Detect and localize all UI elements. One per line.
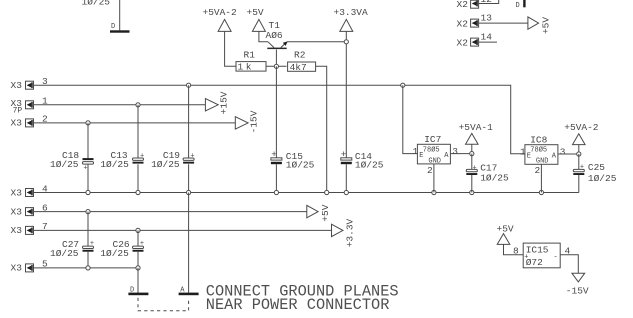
ground D (bottom) xyxy=(128,286,148,295)
svg-text:X3: X3 xyxy=(11,187,23,198)
svg-text:NEAR POWER CONNECTOR: NEAR POWER CONNECTOR xyxy=(206,296,390,314)
wire IC7 gnd xyxy=(433,164,435,193)
junction row4/C14 xyxy=(344,190,348,194)
junction row4/IC8 gnd xyxy=(539,190,543,194)
transistor T1 A06 xyxy=(266,20,288,49)
svg-text:X2: X2 xyxy=(457,0,469,10)
connector X3 pin 3 xyxy=(11,76,49,91)
wire row1 (X3-1 to +15V) xyxy=(34,104,206,106)
wire X2-12 up off-screen xyxy=(479,0,499,4)
svg-text:X3: X3 xyxy=(11,80,23,91)
svg-text:IC7: IC7 xyxy=(424,134,441,145)
junction row4/C19 xyxy=(187,190,191,194)
svg-text:A: A xyxy=(444,152,449,160)
connector X3 pin 1 xyxy=(11,96,49,116)
svg-text:-: - xyxy=(554,253,558,261)
ground A (bottom) xyxy=(179,286,199,295)
svg-text:k: k xyxy=(246,62,252,73)
voltage regulator IC7 xyxy=(413,134,459,176)
junction row1/C13 xyxy=(136,103,140,107)
svg-text:E: E xyxy=(527,153,531,161)
svg-text:-15V: -15V xyxy=(249,110,260,133)
svg-text:X3: X3 xyxy=(11,225,23,236)
svg-text:1: 1 xyxy=(520,146,526,157)
capacitor C26 xyxy=(100,230,144,268)
wire +5V to IC15 pin 8 xyxy=(504,244,524,254)
wire IC8 gnd xyxy=(540,164,542,192)
capacitor C15 xyxy=(271,149,315,193)
wire R2 to row4 xyxy=(315,66,326,192)
capacitor C27 xyxy=(50,212,94,268)
wire row3 to IC7 input xyxy=(403,85,418,153)
junction row4/C15 xyxy=(274,190,278,194)
wire C13 top xyxy=(137,105,139,158)
wire +5VA-2 to R1 xyxy=(225,31,236,66)
capacitor C25 xyxy=(573,154,616,193)
svg-text:1: 1 xyxy=(238,62,244,73)
resistor R1 xyxy=(236,50,266,73)
svg-text:X2: X2 xyxy=(457,38,469,49)
wire +3.3VA down through node to C14 xyxy=(345,31,347,157)
svg-text:X3: X3 xyxy=(11,206,23,217)
connector X3 pin 6 xyxy=(11,202,49,217)
junction row3/IC7 input xyxy=(401,83,405,87)
supply -15V (down triangle) xyxy=(566,273,589,296)
svg-text:1Ø/25: 1Ø/25 xyxy=(151,159,180,170)
connector X3 pin 5 xyxy=(11,259,49,274)
svg-text:1Ø/25: 1Ø/25 xyxy=(480,172,509,183)
svg-text:+15V: +15V xyxy=(218,91,229,114)
junction row4/C13 xyxy=(136,190,140,194)
svg-text:+5V: +5V xyxy=(541,17,552,34)
dashed link between ground planes xyxy=(138,298,189,311)
junction row4/R2 xyxy=(325,190,329,194)
wire row2 (X3-2 to -15V) xyxy=(34,122,236,124)
svg-text:78Ø5: 78Ø5 xyxy=(423,145,440,154)
capacitor C14 xyxy=(341,149,384,193)
svg-text:X3: X3 xyxy=(11,118,23,129)
supply arrow -15V xyxy=(235,110,259,133)
wire row4 to ground A xyxy=(188,193,190,293)
svg-text:IC15: IC15 xyxy=(526,244,549,255)
svg-text:8: 8 xyxy=(513,245,519,256)
power +5V (IC15) xyxy=(497,224,514,245)
svg-text:+5VA-2: +5VA-2 xyxy=(564,122,599,133)
junction IC8 out / C25 / +5VA-2 xyxy=(577,152,581,156)
svg-text:AØ6: AØ6 xyxy=(266,30,283,41)
wire +5V to T1 xyxy=(259,31,268,41)
capacitor C17 xyxy=(466,154,509,193)
svg-text:1Ø/25: 1Ø/25 xyxy=(355,159,384,170)
svg-text:+3.3VA: +3.3VA xyxy=(334,7,369,18)
svg-text:1: 1 xyxy=(413,146,419,157)
svg-text:X3: X3 xyxy=(11,263,23,274)
svg-text:R1: R1 xyxy=(244,50,256,61)
svg-text:+5V: +5V xyxy=(247,7,264,18)
connector X3 pin 4 xyxy=(11,183,49,198)
wire row5 to ground D xyxy=(137,268,139,293)
connector X2 pin 13 xyxy=(457,13,493,30)
junction row4/IC7 gnd xyxy=(432,190,436,194)
power +5VA-2 (right) xyxy=(564,122,599,152)
wire R1 to node xyxy=(266,65,287,67)
svg-text:1Ø/25: 1Ø/25 xyxy=(286,159,315,170)
op-amp power block IC15 xyxy=(513,243,571,268)
note text xyxy=(206,283,399,315)
wire row6 (X3-6 to +5V) xyxy=(34,211,307,213)
junction T1 emitter / +3.3VA xyxy=(344,40,348,44)
svg-text:1Ø/25: 1Ø/25 xyxy=(82,0,111,8)
connector X2 pin 12 xyxy=(457,0,493,10)
wire T1 emitter to +3.3VA node xyxy=(287,41,346,43)
junction IC7 out / C17 / +5VA-1 xyxy=(470,152,474,156)
capacitor C18 xyxy=(50,150,94,193)
svg-text:+5VA-2: +5VA-2 xyxy=(203,7,238,18)
voltage regulator IC8 xyxy=(520,134,566,176)
svg-text:1Ø/25: 1Ø/25 xyxy=(588,173,617,184)
svg-text:+5V: +5V xyxy=(320,204,331,221)
svg-text:1Ø/25: 1Ø/25 xyxy=(50,248,79,259)
svg-text:3: 3 xyxy=(560,146,566,157)
svg-text:D: D xyxy=(516,2,520,10)
capacitor C19 xyxy=(151,85,195,192)
svg-text:R2: R2 xyxy=(294,50,306,61)
junction row7/C26 xyxy=(136,228,140,232)
svg-text:D: D xyxy=(130,286,134,294)
wire IC7 output xyxy=(450,153,471,155)
svg-text:1Ø/25: 1Ø/25 xyxy=(100,159,129,170)
svg-text:4k7: 4k7 xyxy=(290,62,307,73)
wire from off-screen cap to ground D (top left) xyxy=(119,0,121,30)
svg-text:+5VA-1: +5VA-1 xyxy=(459,122,494,133)
svg-text:2: 2 xyxy=(427,165,433,176)
wire X2-14 stub xyxy=(479,41,497,43)
wire IC8 output xyxy=(558,153,579,155)
svg-text:C25: C25 xyxy=(588,162,605,173)
svg-text:A: A xyxy=(552,153,557,161)
wire row3 (X3-3 to IC8 input) xyxy=(34,85,525,154)
junction row4/C18 xyxy=(86,190,90,194)
wire row7 (X3-7 to +3.3V) xyxy=(34,229,332,231)
wire T1 base xyxy=(275,50,277,67)
ground D (top left) xyxy=(110,23,130,33)
svg-text:12: 12 xyxy=(481,0,493,5)
power +3.3VA xyxy=(334,7,369,31)
connector X2 pin 14 xyxy=(457,32,493,49)
svg-text:+3.3V: +3.3V xyxy=(345,218,356,247)
svg-text:-15V: -15V xyxy=(566,285,589,296)
wire row5 (X3-5 digital ground) xyxy=(34,267,139,269)
svg-text:Ø72: Ø72 xyxy=(526,257,543,268)
svg-text:13: 13 xyxy=(481,13,493,24)
svg-text:1Ø/25: 1Ø/25 xyxy=(50,159,79,170)
connector X3 pin 7 xyxy=(11,221,48,236)
svg-text:78Ø5: 78Ø5 xyxy=(530,146,547,155)
junction row4/C17 xyxy=(470,190,474,194)
svg-text:+5V: +5V xyxy=(497,224,514,235)
svg-text:E: E xyxy=(419,152,423,160)
svg-text:+: + xyxy=(473,164,477,172)
svg-text:IC8: IC8 xyxy=(530,134,547,145)
junction row5/C26 xyxy=(136,266,140,270)
junction row5/C27 xyxy=(86,266,90,270)
wire IC15 pin 4 to -15V xyxy=(560,255,578,273)
junction row6/C27 xyxy=(86,210,90,214)
wire X2-13 to +5V arrow xyxy=(479,22,528,24)
junction row3/C19 xyxy=(187,83,191,87)
power +5VA-1 xyxy=(459,122,494,152)
svg-text:+: + xyxy=(580,164,584,172)
svg-text:2: 2 xyxy=(535,165,541,176)
power +5V (T1 collector) xyxy=(247,7,266,31)
power +5VA-2 (left) xyxy=(203,7,238,31)
resistor R2 xyxy=(288,50,316,73)
svg-text:+: + xyxy=(271,149,277,160)
capacitor C13 xyxy=(100,150,144,193)
junction R1/R2/base xyxy=(274,64,278,68)
connector X3 pin 2 xyxy=(11,114,49,129)
wire row4 (analog ground rail) xyxy=(34,192,579,194)
svg-text:1Ø/25: 1Ø/25 xyxy=(100,248,129,259)
supply arrow +15V xyxy=(205,91,229,114)
wire C18 top xyxy=(87,123,89,158)
svg-text:D: D xyxy=(111,23,115,31)
supply arrow +5V (X2-13) xyxy=(528,17,552,34)
wire base node down to C15 xyxy=(275,66,277,158)
ground D (top right, rotated) xyxy=(516,0,526,10)
supply arrow +5V (row6) xyxy=(307,204,331,221)
svg-text:7P: 7P xyxy=(13,106,23,115)
svg-text:+: + xyxy=(83,164,87,172)
svg-text:14: 14 xyxy=(481,32,493,43)
supply arrow +3.3V (row7) xyxy=(332,218,356,247)
svg-text:+: + xyxy=(341,149,347,160)
svg-text:3: 3 xyxy=(452,146,458,157)
svg-text:X2: X2 xyxy=(457,19,469,30)
junction row2/C18 xyxy=(86,121,90,125)
